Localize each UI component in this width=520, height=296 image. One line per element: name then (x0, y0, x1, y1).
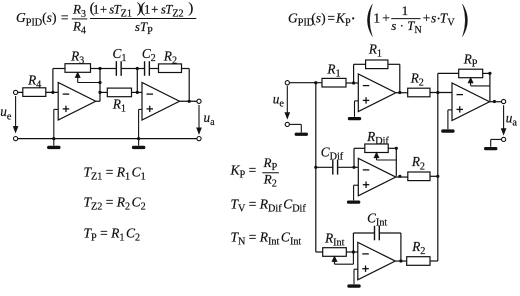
svg-text:): ) (137, 0, 142, 16)
svg-text:=: = (61, 10, 69, 25)
svg-text:s: s (431, 11, 436, 26)
svg-text:+: + (100, 2, 107, 16)
svg-text:+: + (423, 11, 431, 26)
svg-text:1: 1 (144, 2, 150, 16)
svg-text:=: = (327, 11, 335, 26)
svg-text:(s): (s) (311, 11, 325, 26)
svg-text:+: + (382, 11, 390, 26)
svg-text:1: 1 (402, 3, 409, 18)
svg-text:1: 1 (93, 2, 99, 16)
svg-text:+: + (151, 2, 158, 16)
svg-text:): ) (188, 0, 193, 16)
svg-text:1: 1 (373, 11, 380, 26)
